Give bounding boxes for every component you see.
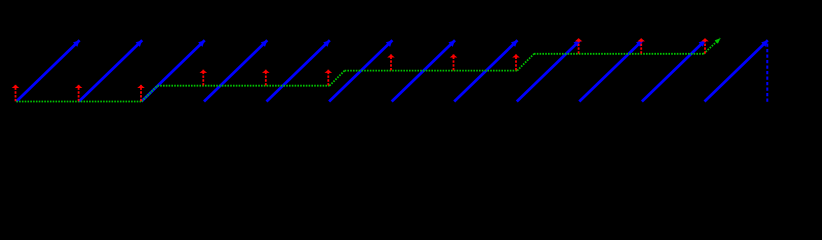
red increment arrow 8	[453, 54, 455, 70]
sawtooth tooth 5 (blue arrow)	[267, 40, 330, 101]
sawtooth tooth 2 (blue arrow)	[79, 40, 142, 101]
green staircase level 4	[534, 53, 704, 55]
red increment arrow 6	[327, 70, 329, 86]
blue dashed vertical drop at last apex	[766, 44, 768, 103]
red increment arrow 7	[390, 54, 392, 70]
sawtooth tooth 9 (blue arrow)	[517, 40, 580, 101]
sawtooth tooth 10 (blue arrow)	[579, 40, 642, 101]
sawtooth tooth 1 (blue arrow)	[16, 40, 79, 101]
sawtooth tooth 6 (blue arrow)	[329, 40, 392, 101]
red increment arrow 12	[704, 38, 706, 53]
green staircase level 3	[345, 70, 518, 72]
sawtooth tooth 7 (blue arrow)	[392, 40, 455, 101]
red increment arrow 10	[578, 38, 580, 53]
green staircase level 2	[157, 85, 329, 87]
green staircase rise 2	[330, 71, 345, 86]
sawtooth tooth 12 (blue arrow)	[705, 40, 768, 101]
green staircase level 1	[16, 101, 141, 103]
red increment arrow 3	[140, 85, 142, 101]
sawtooth tooth 3 (blue arrow)	[141, 40, 204, 101]
red increment arrow 5	[265, 70, 267, 86]
red increment arrow 4	[202, 70, 204, 86]
red increment arrow 1	[15, 85, 17, 101]
sawtooth tooth 4 (blue arrow)	[204, 40, 267, 101]
sawtooth tooth 11 (blue arrow)	[642, 40, 705, 101]
green staircase rise 1	[142, 86, 158, 102]
green staircase final rise with arrowhead	[704, 38, 721, 54]
red increment arrow 11	[640, 38, 642, 53]
green staircase rise 3	[517, 54, 534, 71]
red increment arrow 9	[515, 54, 517, 70]
sawtooth tooth 8 (blue arrow)	[454, 40, 517, 101]
red increment arrow 2	[78, 85, 80, 101]
